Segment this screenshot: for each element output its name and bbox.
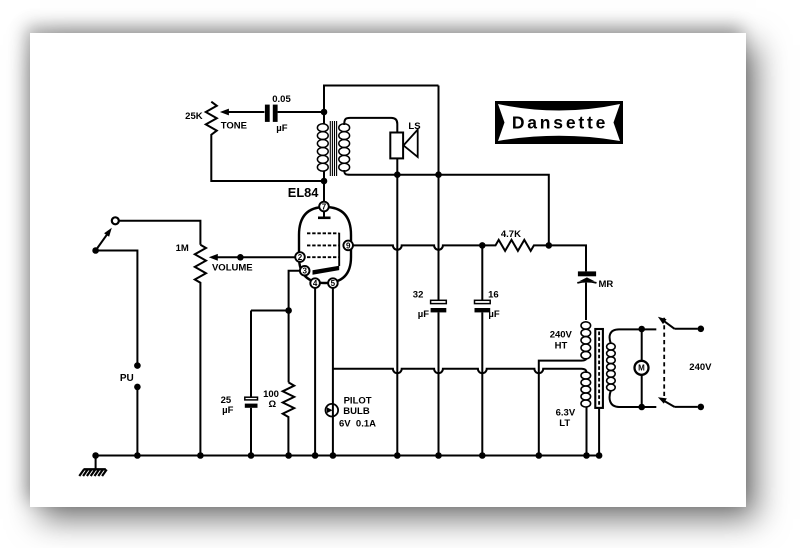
svg-text:BULB: BULB: [343, 406, 370, 417]
svg-text:0.05: 0.05: [272, 94, 291, 105]
svg-text:5: 5: [331, 279, 336, 288]
svg-text:3: 3: [302, 267, 307, 276]
svg-text:EL84: EL84: [288, 185, 319, 200]
svg-text:MR: MR: [599, 279, 614, 290]
svg-text:M: M: [638, 364, 645, 373]
svg-text:6.3V: 6.3V: [556, 408, 576, 419]
svg-text:16: 16: [488, 289, 499, 300]
svg-text:4: 4: [313, 279, 318, 288]
svg-text:Dansette: Dansette: [512, 113, 608, 133]
svg-text:6V 0.1A: 6V 0.1A: [339, 418, 376, 429]
svg-text:HT: HT: [555, 341, 568, 352]
svg-text:Ω: Ω: [268, 399, 276, 410]
svg-text:VOLUME: VOLUME: [212, 263, 253, 274]
svg-text:240V: 240V: [689, 362, 712, 373]
svg-text:µF: µF: [488, 309, 499, 320]
svg-text:TONE: TONE: [221, 121, 247, 132]
svg-text:µF: µF: [418, 309, 429, 320]
svg-text:7: 7: [322, 202, 327, 211]
svg-text:25K: 25K: [185, 111, 203, 122]
svg-text:2: 2: [298, 253, 303, 262]
svg-text:PU: PU: [120, 373, 134, 384]
svg-text:LT: LT: [559, 418, 570, 429]
svg-text:1M: 1M: [176, 243, 189, 254]
svg-text:32: 32: [413, 289, 424, 300]
svg-text:PILOT: PILOT: [344, 396, 372, 407]
svg-text:µF: µF: [276, 123, 287, 134]
svg-text:4.7K: 4.7K: [501, 229, 521, 240]
svg-text:µF: µF: [222, 405, 233, 416]
svg-text:LS: LS: [408, 121, 420, 132]
svg-text:9: 9: [346, 241, 351, 250]
svg-text:240V: 240V: [550, 329, 573, 340]
